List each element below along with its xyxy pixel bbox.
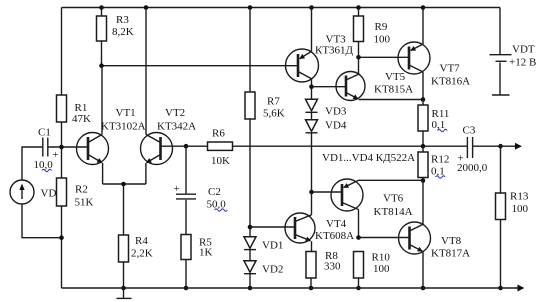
wire VT2 base to R6 bbox=[161, 145, 208, 147]
resistor R13 bbox=[496, 146, 529, 288]
svg-text:VD2: VD2 bbox=[262, 264, 283, 276]
svg-text:R4: R4 bbox=[135, 235, 148, 247]
svg-text:47K: 47K bbox=[72, 113, 91, 125]
resistor R12 bbox=[418, 146, 449, 180]
wire output feedback line bbox=[233, 145, 468, 147]
svg-text:KT3102A: KT3102A bbox=[101, 121, 146, 133]
node R5 ground rail bbox=[184, 286, 189, 291]
wire left column R2 to ground rail bbox=[61, 206, 63, 288]
wire C1 to VT1 base bbox=[48, 146, 88, 148]
svg-text:8,2K: 8,2K bbox=[112, 26, 134, 38]
source VD bbox=[10, 180, 56, 204]
battery VDT bbox=[490, 8, 537, 96]
resistor R6 bbox=[208, 128, 233, 168]
transistor VT4 bbox=[285, 192, 354, 252]
svg-text:2,2K: 2,2K bbox=[131, 248, 153, 260]
resistor R2 bbox=[57, 178, 94, 209]
node top rail VT3 emitter bbox=[309, 5, 314, 10]
svg-text:VD1: VD1 bbox=[262, 240, 283, 252]
node VD return junction bbox=[59, 235, 64, 240]
node top rail R3 bbox=[99, 5, 104, 10]
svg-text:R12: R12 bbox=[431, 154, 449, 166]
node R13 ground rail bbox=[498, 286, 503, 291]
ground bbox=[117, 288, 132, 298]
wire VT4 base lead bbox=[250, 226, 295, 228]
transistor VT2 bbox=[141, 8, 197, 185]
node top rail VT2 collector bbox=[144, 5, 149, 10]
svg-text:VT4: VT4 bbox=[326, 218, 347, 230]
resistor R1 bbox=[57, 95, 92, 125]
resistor R11 bbox=[418, 100, 449, 147]
wire VT8 base lead bbox=[359, 237, 410, 239]
svg-text:KT814A: KT814A bbox=[374, 206, 413, 218]
svg-text:VD1...VD4 КД522А: VD1...VD4 КД522А bbox=[322, 152, 415, 164]
svg-text:C1: C1 bbox=[38, 127, 51, 139]
wire VD return to left column bbox=[22, 204, 62, 238]
capacitor C3 bbox=[457, 125, 501, 175]
svg-text:VT2: VT2 bbox=[165, 107, 185, 119]
svg-text:VT7: VT7 bbox=[440, 63, 461, 75]
wire left supply column upper bbox=[61, 8, 63, 96]
resistor R5 bbox=[181, 235, 213, 289]
resistor R3 bbox=[97, 8, 134, 66]
wire emitter join bbox=[103, 184, 146, 235]
node R4 ground rail bbox=[121, 286, 126, 291]
svg-text:R2: R2 bbox=[75, 184, 88, 196]
svg-text:+: + bbox=[52, 149, 58, 161]
node output junction bbox=[421, 144, 426, 149]
svg-text:R9: R9 bbox=[375, 21, 388, 33]
svg-text:10K: 10K bbox=[211, 155, 230, 167]
svg-text:KT816A: KT816A bbox=[431, 76, 470, 88]
diode VD2 bbox=[244, 250, 283, 288]
svg-text:VD: VD bbox=[41, 188, 57, 200]
node top rail R7 bbox=[248, 5, 253, 10]
wire left column R1-R2 bbox=[61, 122, 63, 178]
svg-text:KT342A: KT342A bbox=[157, 121, 196, 133]
svg-text:VT6: VT6 bbox=[383, 193, 404, 205]
svg-text:51K: 51K bbox=[75, 197, 94, 209]
svg-text:100: 100 bbox=[512, 203, 529, 215]
wire input to C1 bbox=[22, 147, 43, 180]
squiggle under 50,0 bbox=[215, 209, 228, 211]
svg-text:VD3: VD3 bbox=[325, 106, 347, 118]
node R12 VT6 emitter VT8 collector bbox=[421, 178, 426, 183]
svg-text:KT817A: KT817A bbox=[431, 248, 470, 260]
wire VT5 base lead bbox=[312, 86, 347, 88]
capacitor C1 bbox=[34, 127, 59, 172]
resistor R8 bbox=[306, 250, 341, 288]
node VT6 base junction bbox=[309, 190, 314, 195]
transistor VT1 bbox=[77, 66, 146, 184]
wire VT6 base lead bbox=[312, 191, 343, 193]
svg-text:R6: R6 bbox=[212, 128, 225, 140]
svg-text:КТ361Д: КТ361Д bbox=[315, 45, 354, 57]
svg-text:VT1: VT1 bbox=[116, 107, 136, 119]
svg-text:R10: R10 bbox=[372, 252, 391, 264]
node R3-VT1 collector bbox=[99, 63, 104, 68]
node emitter join bbox=[121, 182, 126, 187]
diode VD1 bbox=[244, 237, 283, 252]
wire VT7 base lead bbox=[359, 56, 410, 58]
transistor VT6 bbox=[331, 179, 423, 238]
squiggle under R12 value bbox=[436, 176, 446, 178]
resistor R10 bbox=[354, 252, 391, 289]
node VT3 collector junction bbox=[309, 84, 314, 89]
node R9 VT5 collector VT7 base bbox=[356, 55, 361, 60]
capacitor C2 bbox=[174, 146, 227, 234]
svg-text:100: 100 bbox=[373, 263, 390, 275]
svg-text:VT5: VT5 bbox=[385, 71, 406, 83]
svg-text:VDT: VDT bbox=[512, 44, 535, 56]
wire first stage node line bbox=[102, 65, 299, 67]
node VT4 base junction bbox=[248, 225, 253, 230]
node top rail R9 bbox=[356, 5, 361, 10]
svg-text:+12 В: +12 В bbox=[509, 57, 536, 69]
resistor R9 bbox=[354, 8, 391, 58]
node top rail VT7 emitter bbox=[421, 5, 426, 10]
transistor VT3 bbox=[286, 8, 354, 100]
svg-text:KT608A: KT608A bbox=[315, 230, 354, 242]
diode VD3 bbox=[306, 99, 347, 117]
svg-text:1K: 1K bbox=[199, 247, 213, 259]
svg-text:R7: R7 bbox=[267, 96, 280, 108]
svg-text:100: 100 bbox=[374, 34, 391, 46]
node VT5 emitter VT7 collector R11 bbox=[421, 97, 426, 102]
svg-text:5,6K: 5,6K bbox=[263, 108, 285, 120]
svg-text:KT815A: KT815A bbox=[374, 84, 413, 96]
wire ground rail bbox=[62, 287, 501, 289]
node R10 ground rail bbox=[356, 286, 361, 291]
svg-text:R13: R13 bbox=[510, 191, 529, 203]
node VT6 collector R10 VT8 base bbox=[356, 235, 361, 240]
squiggle under R11 value bbox=[438, 129, 448, 131]
svg-text:VD4: VD4 bbox=[325, 120, 347, 132]
transistor VT5 bbox=[336, 57, 423, 100]
svg-text:C3: C3 bbox=[463, 125, 476, 137]
svg-text:2000,0: 2000,0 bbox=[457, 162, 488, 174]
svg-text:+: + bbox=[174, 183, 180, 195]
wire top +12V rail bbox=[62, 7, 501, 9]
squiggle under 10,0 bbox=[42, 169, 52, 171]
diode VD4 bbox=[306, 112, 347, 192]
transistor VT8 bbox=[399, 181, 471, 289]
wire output arrow bbox=[501, 145, 521, 147]
svg-text:330: 330 bbox=[324, 261, 341, 273]
node R8 ground rail bbox=[309, 286, 314, 291]
transistor VT7 bbox=[398, 8, 470, 100]
resistor R4 bbox=[119, 235, 153, 288]
wire ground rail arrow bbox=[501, 287, 524, 289]
svg-text:C2: C2 bbox=[208, 186, 221, 198]
node C3 R13 junction bbox=[498, 144, 503, 149]
svg-text:R3: R3 bbox=[116, 14, 129, 26]
node VT8 emitter ground rail bbox=[421, 286, 426, 291]
node VT2 base junction bbox=[184, 144, 189, 149]
svg-text:VT8: VT8 bbox=[441, 235, 462, 247]
node VD2 ground rail bbox=[248, 286, 253, 291]
node input-base junction bbox=[59, 145, 64, 150]
label diode group bbox=[322, 152, 415, 164]
resistor R7 bbox=[245, 8, 285, 237]
